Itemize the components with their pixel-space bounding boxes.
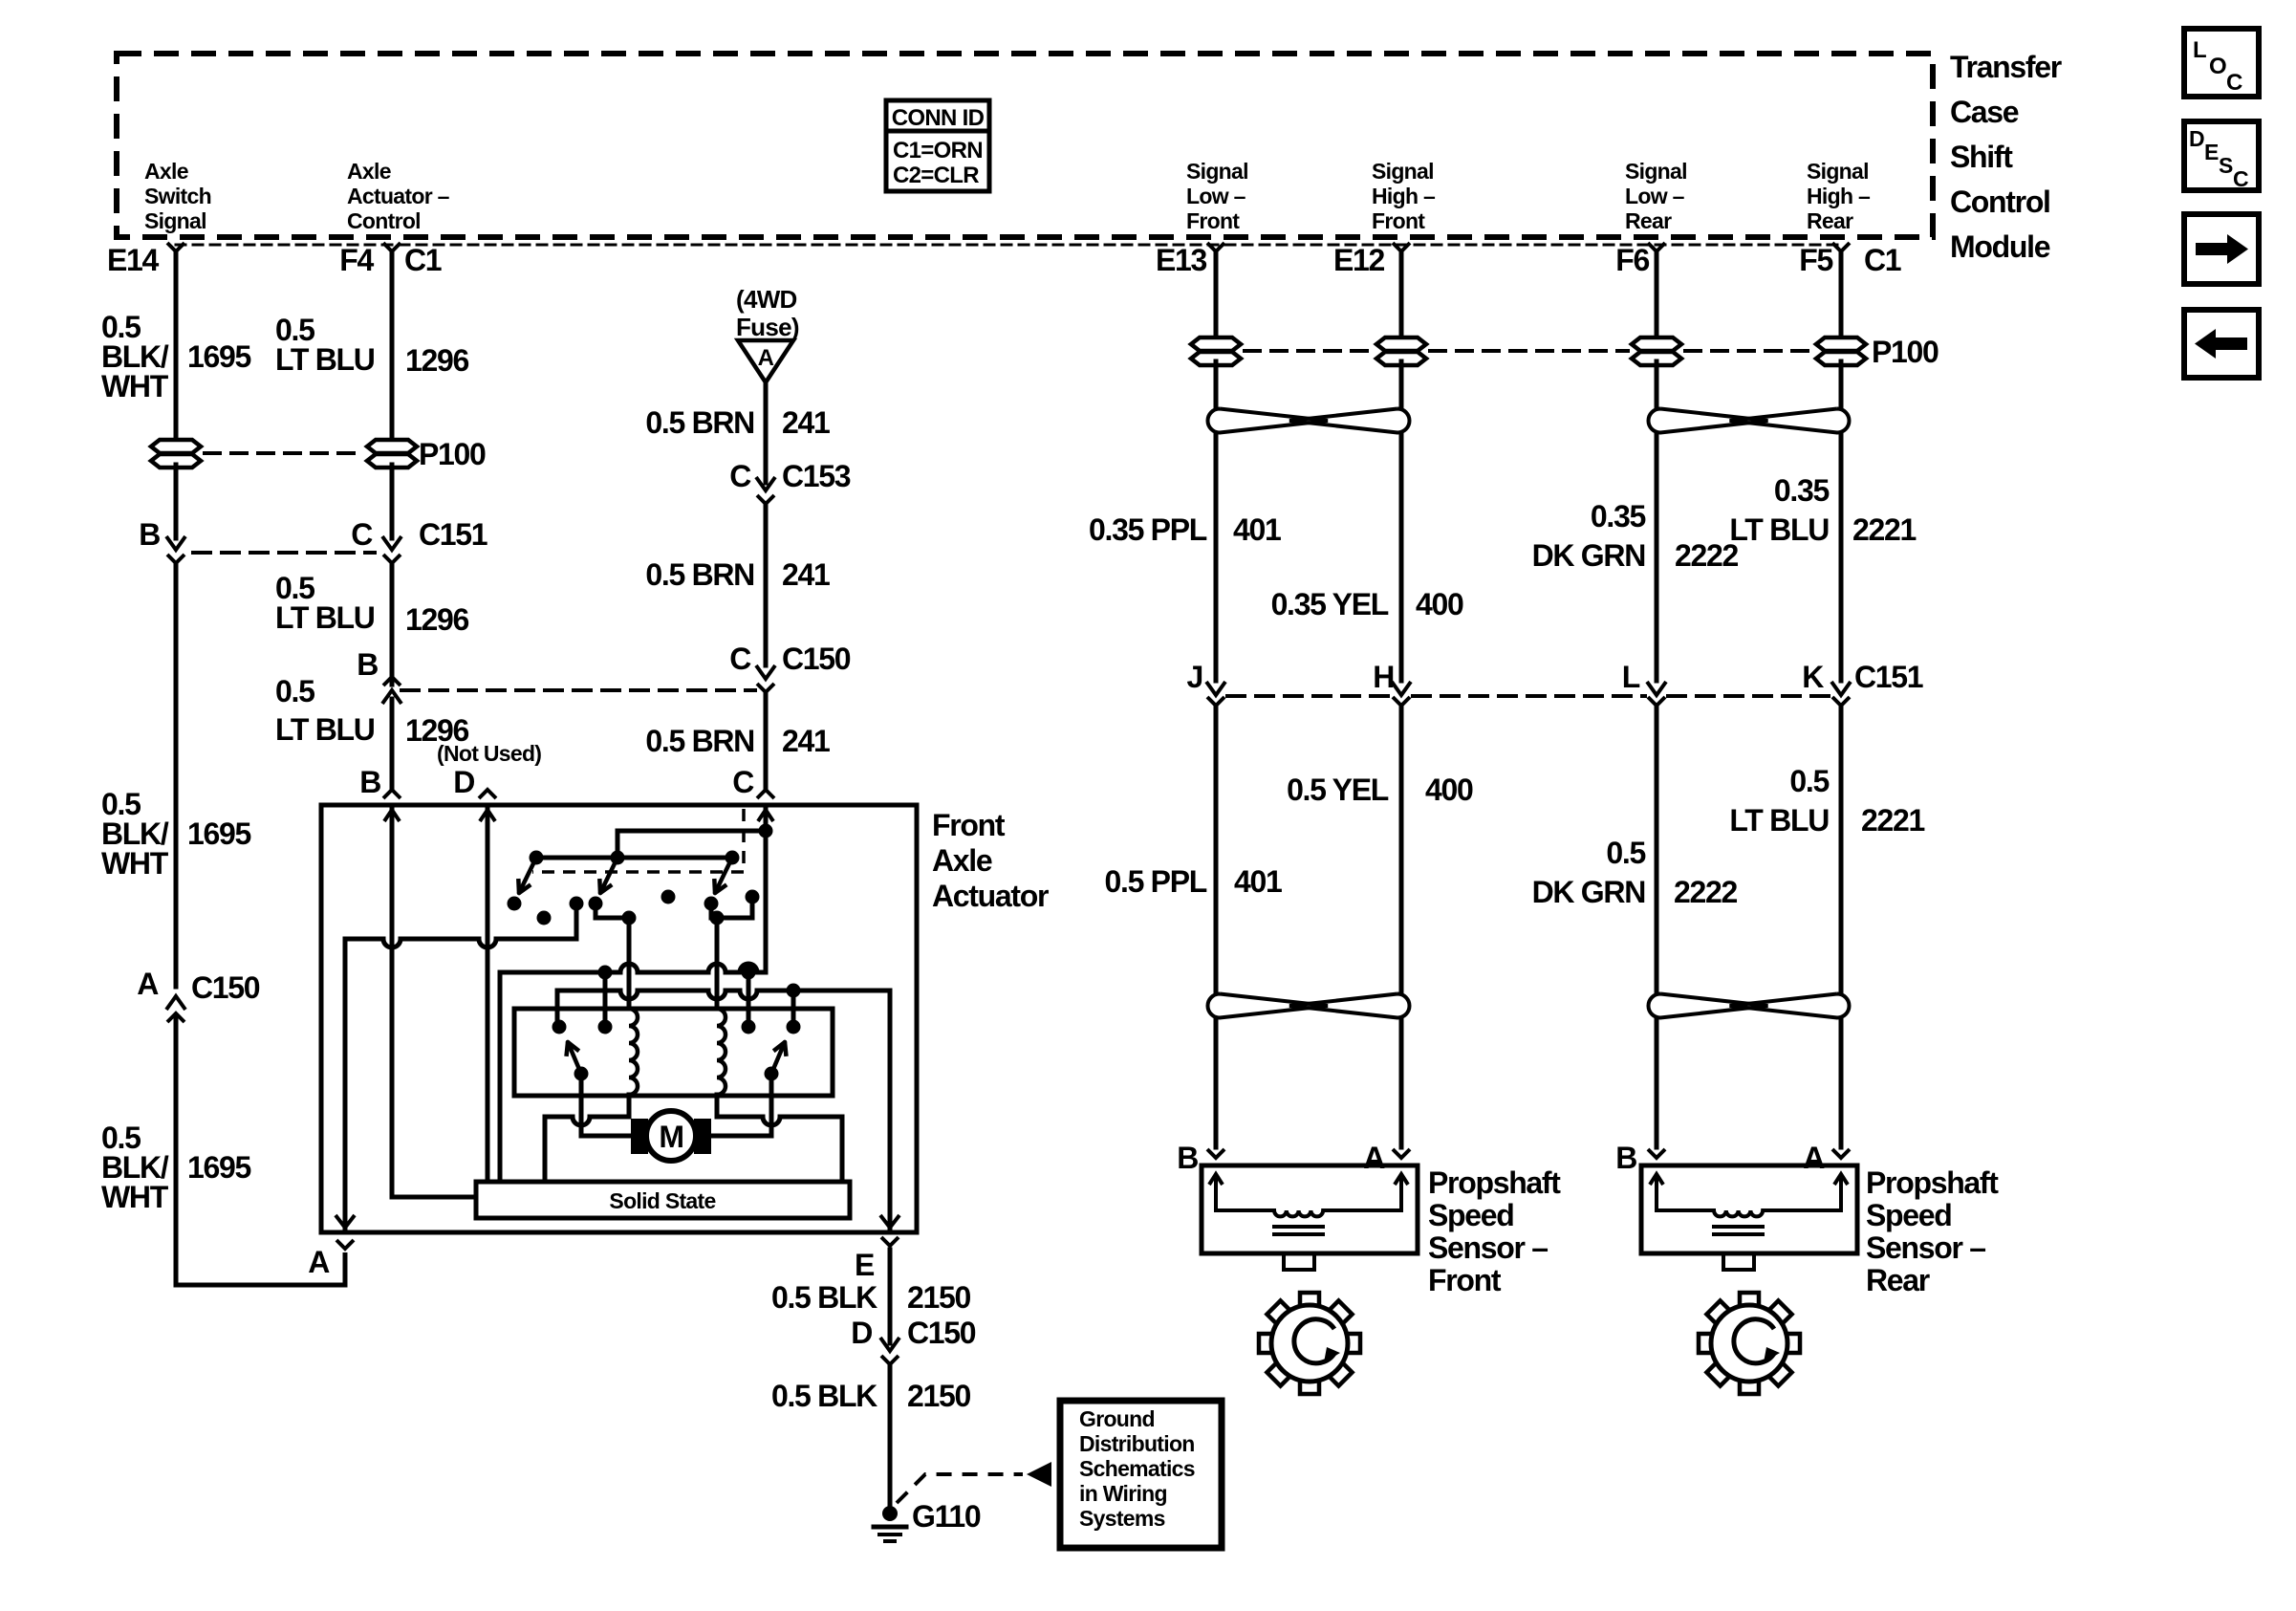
wire 2222 segment C151 to twist2 bbox=[1655, 706, 1659, 992]
sensor front mounting tab bbox=[1284, 1253, 1314, 1270]
fuse symbol A (4WD fuse triangle) bbox=[738, 340, 793, 382]
svg-text:0.5: 0.5 bbox=[1789, 764, 1829, 798]
sensor rear mounting tab bbox=[1723, 1253, 1754, 1270]
wire 2150 segment E to C150 bbox=[888, 1250, 893, 1343]
svg-text:S: S bbox=[2219, 153, 2233, 178]
wire 2221 segment twist2 to sensor bbox=[1839, 1020, 1844, 1147]
svg-text:Signal: Signal bbox=[144, 208, 206, 233]
svg-text:LT BLU: LT BLU bbox=[275, 342, 375, 377]
wire 2150 segment C150 to G110 bbox=[888, 1364, 893, 1509]
svg-text:D: D bbox=[453, 765, 474, 799]
wire 401 segment P100 to twist bbox=[1214, 361, 1219, 406]
svg-text:1695: 1695 bbox=[187, 339, 250, 374]
svg-text:L: L bbox=[2193, 37, 2206, 63]
svg-text:C151: C151 bbox=[1854, 660, 1923, 694]
svg-text:Control: Control bbox=[347, 208, 421, 233]
svg-text:LT BLU: LT BLU bbox=[275, 600, 375, 635]
svg-text:A: A bbox=[1363, 1141, 1385, 1175]
wire 400 segment twist to C151 bbox=[1399, 435, 1404, 681]
svg-text:Front: Front bbox=[1428, 1263, 1502, 1297]
wire 1695 bottom corner to actuator pin A bbox=[176, 1252, 345, 1285]
svg-text:C: C bbox=[2226, 70, 2242, 96]
svg-text:1296: 1296 bbox=[405, 343, 468, 378]
svg-text:E: E bbox=[855, 1248, 875, 1282]
svg-text:2150: 2150 bbox=[907, 1379, 970, 1413]
svg-text:K: K bbox=[1802, 660, 1824, 694]
svg-text:E14: E14 bbox=[107, 243, 160, 277]
CONN ID legend box bbox=[886, 100, 989, 191]
switch pivot dot 3 bbox=[726, 851, 740, 865]
wire 2221 segment C151 to twist2 bbox=[1839, 706, 1844, 992]
svg-text:0.35: 0.35 bbox=[1591, 499, 1646, 533]
junction dot coil2 feed bbox=[710, 911, 725, 925]
module pin E14 terminal chevron bbox=[167, 243, 184, 251]
svg-text:DK GRN: DK GRN bbox=[1532, 875, 1645, 909]
left pivot to motor brush wire bbox=[579, 1074, 584, 1136]
wire 400 segment twist2 to sensor bbox=[1399, 1020, 1404, 1147]
svg-text:Rear: Rear bbox=[1807, 208, 1853, 233]
inner right switch contacts bbox=[742, 1020, 756, 1034]
inline connector P100 symbol on wire 2222 bbox=[1632, 337, 1681, 351]
svg-text:C153: C153 bbox=[782, 459, 851, 493]
wire 400 segment P100 to twist bbox=[1399, 361, 1404, 406]
svg-text:0.35 PPL: 0.35 PPL bbox=[1089, 512, 1207, 547]
svg-text:A: A bbox=[758, 345, 774, 371]
svg-text:0.35: 0.35 bbox=[1774, 473, 1830, 508]
inline connector P100 symbol on wire 401 bbox=[1191, 337, 1241, 351]
wire W-E to pin E with hops bbox=[557, 991, 890, 999]
wire 2222 segment twist to C151 bbox=[1655, 435, 1659, 681]
svg-text:Front: Front bbox=[932, 808, 1006, 842]
LOC navigation icon bbox=[2184, 29, 2259, 97]
svg-text:C150: C150 bbox=[907, 1316, 976, 1350]
switch common bus wire bbox=[536, 856, 732, 860]
svg-text:E12: E12 bbox=[1333, 243, 1385, 277]
forward arrow navigation icon bbox=[2184, 214, 2259, 284]
inner left switch contacts bbox=[552, 1020, 567, 1034]
svg-text:Low –: Low – bbox=[1186, 184, 1246, 208]
wire 401 segment C151 to twist2 bbox=[1214, 706, 1219, 992]
wire 241 segment C150 to actuator pin C bbox=[764, 692, 769, 788]
inline connector P100 (left pair) symbol on wire 1695 bbox=[151, 440, 201, 453]
module pin F6 terminal chevron bbox=[1648, 243, 1665, 251]
svg-text:P100: P100 bbox=[1872, 335, 1939, 369]
svg-text:C1: C1 bbox=[1864, 243, 1901, 277]
sensor front core lines bbox=[1274, 1225, 1323, 1229]
coil L2 winding bbox=[717, 1009, 726, 1095]
wire 1695 segment C150 to corner bbox=[174, 1017, 179, 1285]
coil L1 bottom lead bbox=[627, 1095, 632, 1117]
svg-text:Transfer: Transfer bbox=[1950, 50, 2062, 84]
svg-text:Signal: Signal bbox=[1372, 159, 1434, 184]
svg-text:Sensor –: Sensor – bbox=[1866, 1230, 1985, 1265]
svg-text:J: J bbox=[1187, 660, 1203, 694]
svg-text:400: 400 bbox=[1425, 773, 1473, 807]
wire B internal vertical to solid state bbox=[392, 805, 476, 1197]
switch arm 2 with arrowhead bbox=[600, 858, 617, 893]
contact wire from dot to return bus bbox=[574, 903, 579, 939]
svg-text:0.5: 0.5 bbox=[1606, 836, 1645, 870]
svg-text:C1=ORN: C1=ORN bbox=[893, 138, 983, 163]
svg-text:(Not Used): (Not Used) bbox=[437, 741, 541, 766]
wire E internal vertical with bottom arrow bbox=[888, 991, 893, 1228]
coil L2 bottom lead bbox=[715, 1095, 720, 1117]
wire H4 coil2 to solid state with hop over pivot bbox=[717, 1117, 842, 1125]
reference dashed line to ground note bbox=[897, 1474, 1023, 1503]
module pin F5 terminal chevron bbox=[1832, 243, 1850, 251]
svg-text:E: E bbox=[2204, 140, 2219, 164]
svg-text:0.35 YEL: 0.35 YEL bbox=[1271, 587, 1389, 621]
line-A left leg to solid state bbox=[498, 972, 503, 1182]
svg-text:WHT: WHT bbox=[101, 846, 169, 881]
wire 1296 segment F4 to P100 bbox=[390, 251, 395, 443]
svg-text:A: A bbox=[1803, 1141, 1825, 1175]
twisted pair symbol front (lower) bbox=[1207, 994, 1328, 1018]
isolated contact dot bbox=[537, 911, 552, 925]
wire segment pins to P100 x=1272 bbox=[1214, 251, 1219, 340]
svg-text:in Wiring: in Wiring bbox=[1079, 1481, 1167, 1506]
svg-text:Rear: Rear bbox=[1625, 208, 1672, 233]
svg-text:401: 401 bbox=[1233, 512, 1281, 547]
wire 1296 segment P100 to C151 bbox=[390, 465, 395, 538]
svg-text:B: B bbox=[1615, 1141, 1636, 1175]
junction dot W-E at right contact feed bbox=[787, 984, 801, 998]
svg-text:0.5: 0.5 bbox=[275, 674, 314, 708]
sensor rear core lines bbox=[1714, 1225, 1763, 1229]
svg-text:Speed: Speed bbox=[1866, 1198, 1952, 1232]
svg-text:2222: 2222 bbox=[1674, 875, 1737, 909]
svg-text:401: 401 bbox=[1234, 864, 1282, 899]
DESC navigation icon bbox=[2184, 121, 2259, 190]
back arrow navigation icon bbox=[2184, 310, 2259, 378]
return bus wire Y1 with hops over B and D bbox=[345, 939, 576, 947]
line-A junction dots bbox=[598, 966, 613, 980]
svg-text:0.5 BRN: 0.5 BRN bbox=[645, 724, 754, 758]
svg-text:L: L bbox=[1622, 660, 1640, 694]
junction dot coil1 feed bbox=[622, 911, 637, 925]
sensor rear reluctor gear wheel bbox=[1699, 1293, 1800, 1394]
twisted pair symbol rear (lower) bbox=[1648, 994, 1767, 1018]
sensor front reluctor gear wheel bbox=[1259, 1293, 1360, 1394]
coil L1 winding bbox=[629, 1009, 638, 1095]
actuator pin E exit chevron bbox=[881, 1237, 899, 1246]
svg-text:2221: 2221 bbox=[1861, 803, 1924, 838]
svg-text:Case: Case bbox=[1950, 95, 2019, 129]
svg-text:Speed: Speed bbox=[1428, 1198, 1514, 1232]
connector P100 dashed link (right) bbox=[1245, 349, 1373, 353]
svg-text:WHT: WHT bbox=[101, 369, 169, 403]
svg-text:0.5 BRN: 0.5 BRN bbox=[645, 405, 754, 440]
module pin E13 terminal chevron bbox=[1207, 243, 1224, 251]
propshaft speed sensor rear box bbox=[1641, 1165, 1857, 1253]
wire 1695 segment E14 to P100 bbox=[174, 251, 179, 443]
svg-text:Solid State: Solid State bbox=[609, 1188, 715, 1213]
wire C internal vertical upper bbox=[764, 805, 769, 972]
svg-text:(4WD: (4WD bbox=[736, 285, 797, 314]
svg-text:C150: C150 bbox=[782, 642, 851, 676]
inline connector P100 symbol on wire 400 bbox=[1376, 337, 1426, 351]
svg-text:Sensor –: Sensor – bbox=[1428, 1230, 1548, 1265]
svg-text:Propshaft: Propshaft bbox=[1428, 1165, 1561, 1200]
svg-text:C151: C151 bbox=[419, 517, 487, 552]
reference arrowhead bbox=[1027, 1462, 1051, 1487]
return bus left leg with bottom arrow bbox=[343, 939, 348, 1228]
svg-text:DK GRN: DK GRN bbox=[1532, 538, 1645, 573]
wire 2222 segment P100 to twist bbox=[1655, 361, 1659, 406]
wire 2221 segment twist to C151 bbox=[1839, 435, 1844, 681]
coil1 feed vertical bbox=[627, 918, 632, 1009]
connector C151 dashed link bbox=[193, 551, 375, 555]
position sensor inner box bbox=[514, 1009, 833, 1096]
svg-text:C2=CLR: C2=CLR bbox=[893, 163, 979, 188]
svg-text:Distribution: Distribution bbox=[1079, 1431, 1195, 1456]
switch arm 3 with arrowhead bbox=[715, 858, 732, 893]
module pin F4 terminal chevron bbox=[383, 243, 401, 251]
svg-text:Actuator: Actuator bbox=[932, 879, 1049, 913]
sensor front pickup coil bbox=[1216, 1208, 1274, 1212]
svg-text:241: 241 bbox=[782, 405, 830, 440]
motor M brushes bbox=[631, 1119, 648, 1154]
propshaft speed sensor front box bbox=[1202, 1165, 1418, 1253]
svg-text:0.5 BRN: 0.5 BRN bbox=[645, 557, 754, 592]
svg-text:1296: 1296 bbox=[405, 602, 468, 637]
svg-text:LT BLU: LT BLU bbox=[1729, 803, 1829, 838]
svg-text:Axle: Axle bbox=[347, 159, 391, 184]
svg-text:C: C bbox=[2233, 166, 2248, 191]
connector C1 dashed line under module pins bbox=[176, 244, 1841, 247]
wire 1695 segment C151 to C150-A bbox=[174, 563, 179, 987]
wire 1296 segment C151 to C150-B bbox=[390, 563, 395, 685]
svg-text:Fuse): Fuse) bbox=[736, 313, 799, 341]
svg-text:D: D bbox=[851, 1316, 872, 1350]
svg-text:C: C bbox=[729, 642, 751, 676]
svg-text:A: A bbox=[137, 967, 159, 1001]
Front Axle Actuator box bbox=[321, 805, 917, 1232]
twisted pair symbol rear (upper) bbox=[1648, 409, 1767, 433]
wire 400 segment C151 to twist2 bbox=[1399, 706, 1404, 992]
wire 1296 segment C150 to actuator pin B bbox=[390, 699, 395, 788]
svg-text:Signal: Signal bbox=[1625, 159, 1687, 184]
svg-text:E13: E13 bbox=[1156, 243, 1207, 277]
svg-text:Propshaft: Propshaft bbox=[1866, 1165, 1999, 1200]
ground G110 symbol bbox=[882, 1506, 898, 1521]
inner left switch arm with arrowhead bbox=[568, 1042, 581, 1074]
coil2 feed vertical bbox=[715, 918, 720, 1009]
ground note box bbox=[1060, 1401, 1222, 1548]
right pivot to motor brush wire bbox=[769, 1074, 774, 1136]
svg-text:F5: F5 bbox=[1799, 243, 1832, 277]
svg-text:C150: C150 bbox=[191, 970, 260, 1005]
svg-text:Schematics: Schematics bbox=[1079, 1456, 1195, 1481]
svg-text:241: 241 bbox=[782, 724, 830, 758]
line-A drop to left fixed contact bbox=[603, 972, 608, 1027]
wire segment pins to P100 x=1466 bbox=[1399, 251, 1404, 340]
motor M circle bbox=[646, 1111, 696, 1161]
svg-text:Low –: Low – bbox=[1625, 184, 1685, 208]
svg-text:Axle: Axle bbox=[932, 843, 992, 878]
svg-text:0.5 BLK: 0.5 BLK bbox=[771, 1280, 877, 1315]
svg-text:Front: Front bbox=[1372, 208, 1425, 233]
feed to right inner contact bbox=[791, 991, 796, 1027]
svg-text:C: C bbox=[729, 459, 751, 493]
svg-text:CONN ID: CONN ID bbox=[892, 105, 985, 131]
svg-text:C: C bbox=[351, 517, 373, 552]
switch contact dot row bbox=[508, 897, 522, 911]
wire H1 coil1 to solid state with hop over pivot bbox=[545, 1117, 629, 1125]
svg-text:1695: 1695 bbox=[187, 816, 250, 851]
wire contact to coil2 feed bbox=[711, 897, 752, 918]
inline connector P100 symbol on wire 2221 bbox=[1816, 337, 1866, 351]
svg-text:M: M bbox=[659, 1120, 682, 1154]
wire 2222 segment twist2 to sensor bbox=[1655, 1020, 1659, 1147]
wire segment pins to P100 x=1733 bbox=[1655, 251, 1659, 340]
sensor rear pickup coil bbox=[1657, 1208, 1714, 1212]
wire 401 segment twist to C151 bbox=[1214, 435, 1219, 681]
svg-text:Axle: Axle bbox=[144, 159, 188, 184]
svg-text:H: H bbox=[1373, 660, 1394, 694]
wire contact to coil1 feed bbox=[596, 903, 629, 918]
wire segment pins to P100 x=1926 bbox=[1839, 251, 1844, 340]
svg-text:1695: 1695 bbox=[187, 1150, 250, 1185]
svg-text:Rear: Rear bbox=[1866, 1263, 1930, 1297]
svg-text:0.5 YEL: 0.5 YEL bbox=[1287, 773, 1389, 807]
svg-text:D: D bbox=[2189, 126, 2204, 151]
svg-text:B: B bbox=[357, 647, 378, 682]
svg-text:C: C bbox=[732, 765, 754, 799]
switch arm 1 with arrowhead bbox=[519, 858, 536, 893]
svg-text:A: A bbox=[308, 1245, 330, 1279]
svg-text:241: 241 bbox=[782, 557, 830, 592]
switch pivot dot 2 bbox=[611, 851, 625, 865]
inner left switch pivot bbox=[574, 1067, 589, 1081]
connector P100 dashed link (left) bbox=[205, 451, 363, 455]
svg-text:Shift: Shift bbox=[1950, 140, 2013, 174]
svg-text:P100: P100 bbox=[419, 437, 486, 471]
svg-text:F6: F6 bbox=[1615, 243, 1649, 277]
svg-text:High –: High – bbox=[1372, 184, 1436, 208]
svg-text:B: B bbox=[139, 517, 160, 552]
svg-text:Actuator –: Actuator – bbox=[347, 184, 450, 208]
svg-text:Signal: Signal bbox=[1807, 159, 1869, 184]
svg-text:B: B bbox=[1177, 1141, 1198, 1175]
wire line-A from C with hops bbox=[500, 964, 766, 972]
wire 401 segment twist2 to sensor bbox=[1214, 1020, 1219, 1147]
module pin E12 terminal chevron bbox=[1393, 243, 1410, 251]
W-E left leg bbox=[555, 991, 560, 1027]
wire D internal vertical bbox=[486, 805, 490, 1182]
svg-text:B: B bbox=[359, 765, 380, 799]
dashed actuator position link bbox=[532, 809, 744, 872]
svg-text:Module: Module bbox=[1950, 229, 2050, 264]
sensor front internal pickup arrows bbox=[1214, 1180, 1218, 1210]
connector C151 dashed link (right) bbox=[1227, 694, 1390, 698]
module U1 Transfer Case Shift Control Module dashed outline bbox=[117, 54, 1933, 237]
svg-text:F4: F4 bbox=[339, 243, 374, 277]
svg-text:O: O bbox=[2209, 54, 2226, 79]
wire 1695 segment P100 to C151 bbox=[174, 465, 179, 538]
switch pivot dot 1 bbox=[530, 851, 544, 865]
svg-text:400: 400 bbox=[1416, 587, 1463, 621]
inner right switch pivot bbox=[765, 1067, 779, 1081]
svg-text:WHT: WHT bbox=[101, 1180, 169, 1214]
svg-text:Front: Front bbox=[1186, 208, 1240, 233]
sensor rear internal pickup arrows bbox=[1655, 1180, 1658, 1210]
junction dot on wire C bbox=[759, 824, 773, 838]
svg-text:Signal: Signal bbox=[1186, 159, 1248, 184]
wire bus to C junction bbox=[617, 831, 766, 858]
wire 241 segment C153 to C150 bbox=[764, 504, 769, 665]
svg-text:Ground: Ground bbox=[1079, 1406, 1155, 1431]
wire 241 segment fuse to C153 bbox=[764, 383, 769, 483]
svg-text:Systems: Systems bbox=[1079, 1506, 1165, 1531]
line-A drop to right fixed contact bbox=[747, 972, 751, 1027]
svg-text:Control: Control bbox=[1950, 185, 2050, 219]
Solid State box bbox=[476, 1182, 850, 1218]
svg-text:0.5 PPL: 0.5 PPL bbox=[1104, 864, 1206, 899]
twisted pair symbol front (upper) bbox=[1207, 409, 1328, 433]
svg-text:LT BLU: LT BLU bbox=[275, 712, 375, 747]
svg-text:G110: G110 bbox=[912, 1499, 981, 1534]
wire 2221 segment P100 to twist bbox=[1839, 361, 1844, 406]
svg-text:C1: C1 bbox=[404, 243, 442, 277]
inner right switch arm with arrowhead bbox=[771, 1042, 785, 1074]
svg-text:0.5 BLK: 0.5 BLK bbox=[771, 1379, 877, 1413]
svg-text:High –: High – bbox=[1807, 184, 1871, 208]
svg-text:LT BLU: LT BLU bbox=[1729, 512, 1829, 547]
svg-text:Switch: Switch bbox=[144, 184, 211, 208]
inline connector P100 (left pair) symbol on wire 1296 bbox=[367, 440, 417, 453]
svg-text:2150: 2150 bbox=[907, 1280, 970, 1315]
svg-text:2221: 2221 bbox=[1852, 512, 1916, 547]
connector C150 dashed link (pins B to C) bbox=[401, 688, 755, 692]
